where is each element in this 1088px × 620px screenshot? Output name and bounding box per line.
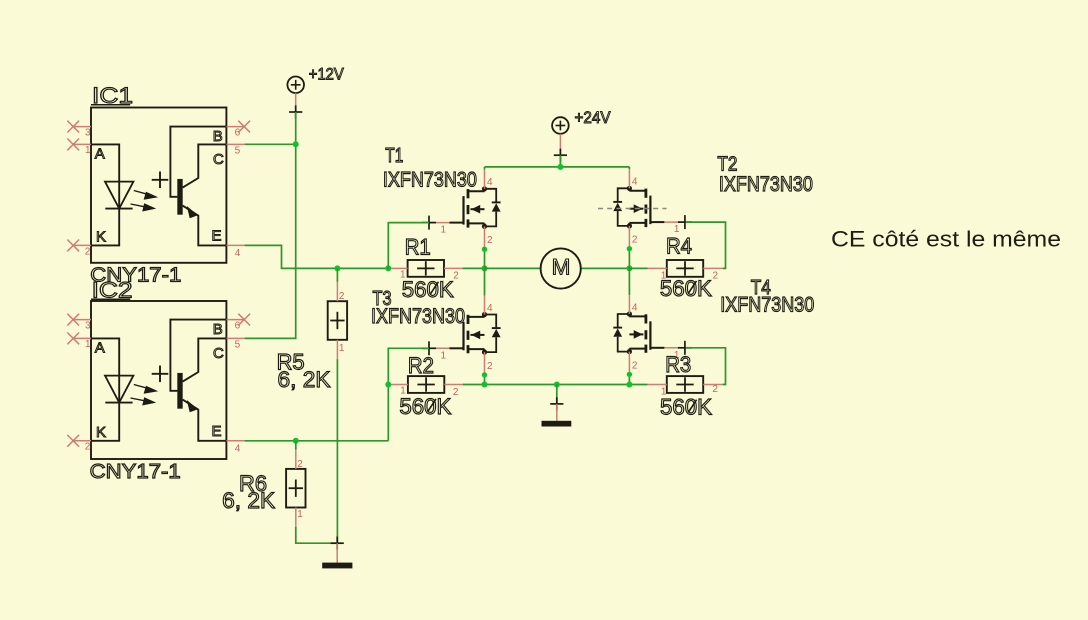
svg-text:CE côté est le même: CE côté est le même [831,227,1061,252]
R3 pin 2 lead [703,384,722,386]
wire R5 top stub [336,268,338,282]
resistor R4 [667,260,703,277]
IC2 pin 2 no-connect X [67,435,91,447]
T2 source pin [628,226,630,249]
R2 pin 1 lead [389,384,408,386]
IC2 pin 4 lead [226,440,244,442]
svg-text:A: A [95,146,105,163]
svg-text:2: 2 [712,384,718,395]
T3 drain pin [484,296,486,315]
R3 designator label [665,352,691,377]
R4 value label 560K [660,276,712,301]
+12V label [309,64,345,83]
T4 pin 2 number [632,360,638,371]
R6 pin 1 lead [295,508,297,527]
IC1 pin 6 number [235,128,241,139]
wire T2 gate loop to R4 [686,222,726,268]
IC1 pin 5 number [235,146,241,157]
transistor T2 [613,186,692,229]
R6 designator label [239,471,267,496]
svg-text:K: K [96,424,106,441]
IC2 plus sign between LED and transistor [152,366,169,383]
IC1 designator label [91,83,133,108]
svg-text:2: 2 [453,387,459,398]
wire motor left [485,267,541,269]
wire IC1 collector to +12V node [245,143,296,145]
R5 pin 1 lead [336,340,338,359]
R1 pin 1 lead [388,267,407,269]
R2 pin 1 number [400,386,406,397]
IC1 pin 1 number [85,145,91,156]
T1 pin 2 number [487,235,493,246]
IC2 pin 5 number [235,340,241,351]
node R2 left junction [385,382,391,388]
resistor R2 [408,376,444,393]
wire T3 source to rail [484,375,486,385]
T4 source pin [628,352,630,375]
R1 pin 1 number [400,270,406,281]
svg-text:+12V: +12V [309,64,345,83]
svg-text:R4: R4 [666,234,692,259]
ground GND1 [542,397,572,426]
wire R1 to motor-left node [463,267,485,269]
dashed wire through T2 [598,208,667,210]
wire IC1 emitter row [245,245,389,268]
IC2 pin letter E [212,423,222,440]
svg-text:1: 1 [339,343,345,354]
svg-text:R1: R1 [405,235,431,260]
IC1 pin letter E [212,228,222,245]
R4 pin 2 lead [703,267,722,269]
IC1 pin letter K [96,229,106,246]
IC1 pin 5 lead [226,143,244,145]
R2 value label 560K [399,394,451,419]
wire T4 source to rail [628,374,630,384]
IC1 LED anode/cathode internal wire [91,144,119,245]
node motor left junction [482,265,488,271]
T3 source pin [484,352,486,375]
svg-text:1: 1 [85,339,91,350]
R4 pin 2 number [713,271,719,282]
R6 pin 1 number [297,509,303,520]
wire bottom rail [463,384,648,386]
svg-text:3: 3 [85,127,91,138]
IC2 LED anode/cathode internal wire [91,338,119,440]
svg-text:2: 2 [632,360,638,371]
node R5 top junction [334,265,340,271]
IC2 LED diode triangle [105,376,133,403]
IC2 LED cathode bar [105,402,132,404]
svg-text:2: 2 [713,271,719,282]
T2 designator label [717,154,737,176]
svg-text:5: 5 [235,340,241,351]
note text CE côté est le même [831,227,1061,252]
svg-text:T1: T1 [385,145,403,167]
IC2 light arrow 1 [134,385,158,394]
wire IC2 emitter row [245,440,389,442]
IC1 phototransistor emitter wire [183,206,227,246]
node +24V rail junction [557,164,563,170]
IC2 pin letter B [213,321,223,338]
T1 source pin [484,226,486,249]
R4 pin 1 number [661,271,667,282]
IC2 light arrow 2 [131,397,157,405]
svg-text:1: 1 [85,145,91,156]
wire ground stub at bridge [556,385,558,404]
wire T2 source to motor-right [628,249,630,269]
svg-text:B: B [213,321,223,338]
IC2 pin 3 no-connect X [67,314,91,326]
wire +12V vertical to IC2 collector [245,112,296,338]
R2 pin 2 number [453,387,459,398]
svg-text:3: 3 [85,320,91,331]
IC1 phototransistor base wire [170,127,226,197]
IC1 light arrow 2 [131,203,157,211]
node +12V / IC1 pin5 junction [293,141,299,147]
T1 designator label [385,145,403,167]
svg-text:IXFN73N30: IXFN73N30 [383,168,477,191]
R5 pin 1 number [339,343,345,354]
svg-text:A: A [95,340,105,357]
svg-text:560K: 560K [660,395,712,420]
IC2 phototransistor base wire [170,320,226,391]
T2 pin 2 number [632,235,638,246]
R5 value label 6, 2K [278,367,331,392]
wire T4 gate loop to R3 [686,348,726,385]
svg-text:2: 2 [487,361,493,372]
svg-text:4: 4 [632,177,638,188]
R6 pin 2 number [297,459,303,470]
svg-text:2: 2 [453,271,459,282]
R1 pin 2 lead [444,267,463,269]
T1 pin 4 number [487,177,493,188]
IC2 pin 1 no-connect X [67,333,91,345]
svg-text:IXFN73N30: IXFN73N30 [371,305,465,328]
IC2 pin 6 number [235,321,241,332]
T4 designator label [751,277,771,299]
IC1 pin 4 lead [226,244,244,246]
svg-text:1: 1 [441,225,447,236]
svg-text:2: 2 [487,235,493,246]
IC1 value label CNY17-1 [90,265,181,287]
IC2 emitter arrow [187,400,198,412]
R6 value label 6, 2K [222,488,275,513]
node T3 source rail junction [482,382,488,388]
node T2 source pin end [627,246,632,251]
+24V supply symbol [552,117,569,162]
node R6 top junction [293,438,299,444]
R4 pin 1 lead [648,267,667,269]
T4 pin 4 number [632,302,638,313]
svg-text:C: C [213,151,224,168]
node ground rail junction [554,382,560,388]
T4 pin 1 number [674,350,680,361]
wire motor right [581,267,630,269]
svg-text:CNY17-1: CNY17-1 [90,461,181,483]
R1 designator label [405,235,431,260]
svg-text:R2: R2 [408,353,434,378]
node motor right junction [626,265,632,271]
wire R6 bottom to ground [296,527,336,543]
IC1 pin 3 number [85,127,91,138]
svg-text:C: C [213,345,224,362]
node T3 source pin end [482,372,487,377]
R4 designator label [666,234,692,259]
svg-text:IXFN73N30: IXFN73N30 [719,173,813,196]
IC2 pin 6 no-connect X [226,314,250,326]
svg-text:6, 2K: 6, 2K [222,488,275,513]
IC1 pin 2 number [85,246,91,257]
node T4 source rail junction [626,382,632,388]
svg-text:E: E [212,228,222,245]
T3 pin 4 number [487,303,493,314]
IC2 phototransistor base bar [177,373,182,409]
IC2 pin 1 number [85,339,91,350]
IC2 pin 2 number [85,442,91,453]
ground GND2 [322,537,352,569]
+12V supply symbol [287,77,304,119]
optocoupler IC2 outline box [91,301,226,459]
wire R5 bottom to ground [336,359,338,543]
IC2 pin letter K [96,424,106,441]
R2 designator label [408,353,434,378]
node R1 left junction [385,265,391,271]
wire T3 drain from motor-left [484,268,486,295]
svg-text:+24V: +24V [575,108,612,127]
IC1 pin 6 no-connect X [226,121,250,133]
svg-text:6: 6 [235,321,241,332]
IC1 phototransistor collector wire [183,144,227,187]
R5 designator label [277,349,305,374]
wire up to T1 gate [388,223,429,269]
svg-text:560K: 560K [660,276,712,301]
T2 drain pin [628,170,630,189]
svg-text:1: 1 [297,509,303,520]
T2 value label IXFN73N30 [719,173,813,196]
R1 value label 560K [402,277,454,302]
R1 pin 2 number [453,271,459,282]
svg-text:6: 6 [235,128,241,139]
svg-text:560K: 560K [399,394,451,419]
resistor R3 [667,376,703,393]
transistor T3 [422,312,501,355]
IC2 value label CNY17-1 [90,461,181,483]
T2 pin 1 number [674,224,680,235]
svg-text:IXFN73N30: IXFN73N30 [720,293,814,316]
IC1 pin letter B [213,128,223,145]
IC2 pin letter A [95,340,105,357]
svg-text:1: 1 [441,350,447,361]
T1 value label IXFN73N30 [383,168,477,191]
optocoupler IC1 outline box [91,108,226,263]
T4 value label IXFN73N30 [720,293,814,316]
IC1 pin letter A [95,146,105,163]
node T4 source pin end [627,372,632,377]
wire T3 gate / divider vertical [388,348,429,441]
svg-text:560K: 560K [402,277,454,302]
IC2 pin letter C [213,345,224,362]
T3 designator label [373,288,392,310]
svg-text:R3: R3 [665,352,691,377]
IC1 LED diode triangle [105,182,133,209]
svg-text:2: 2 [297,459,303,470]
transistor T1 [422,186,501,229]
R6 pin 2 lead [295,450,297,469]
IC2 pin 3 number [85,320,91,331]
R5 pin 2 number [339,291,345,302]
T3 pin 1 number [441,350,447,361]
svg-text:4: 4 [235,443,241,454]
svg-text:4: 4 [487,303,493,314]
R3 pin 2 number [712,384,718,395]
IC1 pin 4 number [235,248,241,259]
svg-text:2: 2 [85,442,91,453]
svg-text:K: K [96,229,106,246]
svg-text:2: 2 [339,291,345,302]
resistor R5 [328,301,347,340]
IC1 plus sign between LED and transistor [152,172,169,189]
svg-text:2: 2 [632,235,638,246]
svg-text:M: M [552,255,571,280]
wire T2 drain stub [628,167,630,169]
IC2 phototransistor collector wire [183,338,227,381]
IC2 pin 5 lead [226,337,244,339]
wire motor-right node to R4 [629,267,647,269]
+24V label [575,108,612,127]
IC1 pin 1 no-connect X [67,139,91,151]
IC1 light arrow 1 [134,191,158,200]
wire T1 drain stub [484,167,486,170]
R2 pin 2 lead [444,384,463,386]
wire +24V stub [559,155,561,167]
wire +24V top rail [485,166,630,168]
T1 pin 1 number [441,225,447,236]
svg-text:5: 5 [235,146,241,157]
svg-text:B: B [213,128,223,145]
svg-text:6, 2K: 6, 2K [278,367,331,392]
transistor T4 [613,311,692,354]
wire T4 drain from motor-right [628,268,630,295]
svg-text:4: 4 [235,248,241,259]
R3 pin 1 number [661,387,667,398]
T2 pin 4 number [632,177,638,188]
svg-text:4: 4 [632,302,638,313]
T3 value label IXFN73N30 [371,305,465,328]
resistor R6 [286,469,305,508]
IC2 phototransistor emitter wire [183,400,227,441]
R3 pin 1 lead [648,384,667,386]
IC1 pin 3 no-connect X [67,121,91,133]
IC1 LED cathode bar [105,208,132,210]
svg-text:2: 2 [85,246,91,257]
IC1 pin 2 no-connect X [67,240,91,252]
IC1 pin letter C [213,151,224,168]
T1 drain pin [484,170,486,189]
T3 pin 2 number [487,361,493,372]
node T1 source pin end [482,247,487,252]
resistor R1 [408,260,444,277]
wire R6 top stub [295,441,297,450]
IC1 phototransistor base bar [177,179,182,215]
IC1 emitter arrow [187,206,198,218]
R3 value label 560K [660,395,712,420]
IC2 designator label [91,278,133,303]
svg-text:4: 4 [487,177,493,188]
svg-text:E: E [212,423,222,440]
IC2 pin 4 number [235,443,241,454]
R5 pin 2 lead [336,282,338,301]
wire T1 source to motor-left [484,249,486,268]
motor M1 [541,248,581,288]
T4 drain pin [628,295,630,314]
